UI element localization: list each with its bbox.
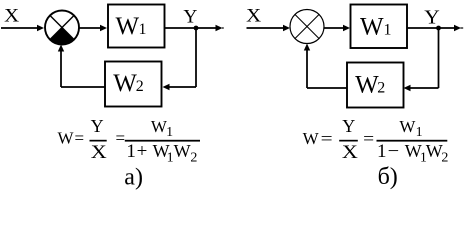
svg-text:б): б) bbox=[378, 164, 398, 190]
svg-text:X: X bbox=[4, 6, 19, 27]
svg-text:1: 1 bbox=[416, 125, 423, 140]
svg-text:1: 1 bbox=[126, 141, 135, 162]
wire: W1 output line (right) bbox=[407, 27, 455, 29]
formula b): W = Y/X = W1/(1-W1W2) bbox=[303, 116, 449, 165]
svg-text:2: 2 bbox=[441, 150, 448, 165]
block W2 (right diagram) bbox=[347, 63, 404, 108]
svg-text:W: W bbox=[116, 13, 140, 40]
svg-text:X: X bbox=[342, 142, 358, 163]
wire: feedback from W2 to summing junction horizontal (left) bbox=[61, 86, 105, 88]
arrowhead into W2 right side (left) bbox=[163, 84, 170, 90]
block W1 (right diagram) bbox=[351, 5, 408, 49]
svg-text:2: 2 bbox=[190, 150, 197, 165]
formula b fraction bar main bbox=[377, 140, 448, 142]
svg-text:=: = bbox=[321, 129, 333, 148]
svg-text:2: 2 bbox=[136, 78, 144, 95]
formula a): W = Y/X = W1/(1+W1W2) bbox=[58, 116, 201, 165]
svg-text:X: X bbox=[91, 142, 107, 163]
wire: output stub past arrowhead (right) bbox=[461, 27, 464, 29]
svg-text:−: − bbox=[388, 141, 400, 162]
wire: left input line bbox=[1, 27, 38, 29]
wire: feedback from W2 to summing junction horizontal (right) bbox=[307, 87, 347, 89]
svg-text:W: W bbox=[113, 70, 137, 97]
svg-text:Y: Y bbox=[91, 116, 104, 136]
formula b fraction bar Y/X bbox=[339, 140, 358, 142]
arrowhead output (left) bbox=[216, 25, 223, 31]
svg-text:X: X bbox=[246, 6, 261, 27]
svg-text:W: W bbox=[426, 141, 443, 161]
svg-text:Y: Y bbox=[183, 6, 197, 27]
svg-text:=: = bbox=[75, 129, 85, 148]
formula a fraction bar Y/X bbox=[90, 140, 107, 142]
svg-text:W: W bbox=[355, 72, 379, 99]
block W1 (left diagram) bbox=[108, 5, 165, 48]
svg-text:1: 1 bbox=[377, 141, 387, 162]
arrowhead into summing junction (right) bbox=[283, 25, 290, 31]
svg-text:W: W bbox=[303, 129, 320, 148]
wire: right input line bbox=[247, 27, 285, 29]
arrowhead up into summing junction bottom (left) bbox=[58, 45, 64, 52]
svg-text:W: W bbox=[174, 141, 191, 161]
svg-text:W: W bbox=[360, 14, 384, 41]
summing junction U2 (adder, circle with cross) bbox=[290, 10, 324, 44]
svg-text:а): а) bbox=[124, 165, 143, 191]
arrowhead into W2 right side (right) bbox=[404, 85, 411, 91]
svg-text:=: = bbox=[363, 129, 374, 148]
junction dot (right) bbox=[436, 26, 441, 31]
wire: output stub past arrowhead (left) bbox=[222, 27, 224, 29]
svg-text:=: = bbox=[116, 129, 126, 148]
svg-text:W: W bbox=[58, 129, 75, 148]
block W2 (left diagram) bbox=[105, 62, 162, 107]
wire: feedback vertical up to summing junction (left) bbox=[60, 51, 62, 87]
arrowhead output (right) bbox=[454, 25, 461, 31]
wire: summing junction to block W1 (right) bbox=[324, 27, 344, 29]
wire: W1 output line (left) bbox=[165, 27, 217, 29]
wire: feedback vertical up to summing junction (right) bbox=[306, 50, 308, 88]
arrowhead into summing junction (left) bbox=[37, 25, 44, 31]
wire: feedback vertical from Y junction (right) bbox=[438, 28, 440, 88]
wire: feedback horizontal into W2 (right) bbox=[410, 87, 439, 89]
summing junction U1 (subtractor, circle with cross, filled lower sector) bbox=[45, 11, 79, 45]
svg-text:Y: Y bbox=[342, 116, 355, 136]
svg-text:+: + bbox=[137, 141, 148, 162]
svg-text:1: 1 bbox=[167, 150, 174, 165]
svg-text:1: 1 bbox=[384, 22, 392, 39]
svg-text:W: W bbox=[399, 117, 416, 136]
svg-text:1: 1 bbox=[166, 125, 173, 140]
svg-text:Y: Y bbox=[424, 7, 440, 29]
arrowhead up into summing junction bottom (right) bbox=[304, 44, 310, 51]
svg-text:2: 2 bbox=[377, 80, 385, 97]
wire: feedback horizontal into W2 (left) bbox=[169, 86, 196, 88]
wire: feedback vertical from Y junction (left) bbox=[195, 28, 197, 87]
junction dot (left) bbox=[194, 26, 199, 31]
wire: summing junction to block W1 (left) bbox=[79, 27, 101, 29]
svg-text:1: 1 bbox=[139, 21, 147, 38]
formula a fraction bar main bbox=[125, 140, 200, 142]
arrowhead into W1 (right) bbox=[343, 25, 350, 31]
arrowhead into W1 (left) bbox=[100, 25, 107, 31]
